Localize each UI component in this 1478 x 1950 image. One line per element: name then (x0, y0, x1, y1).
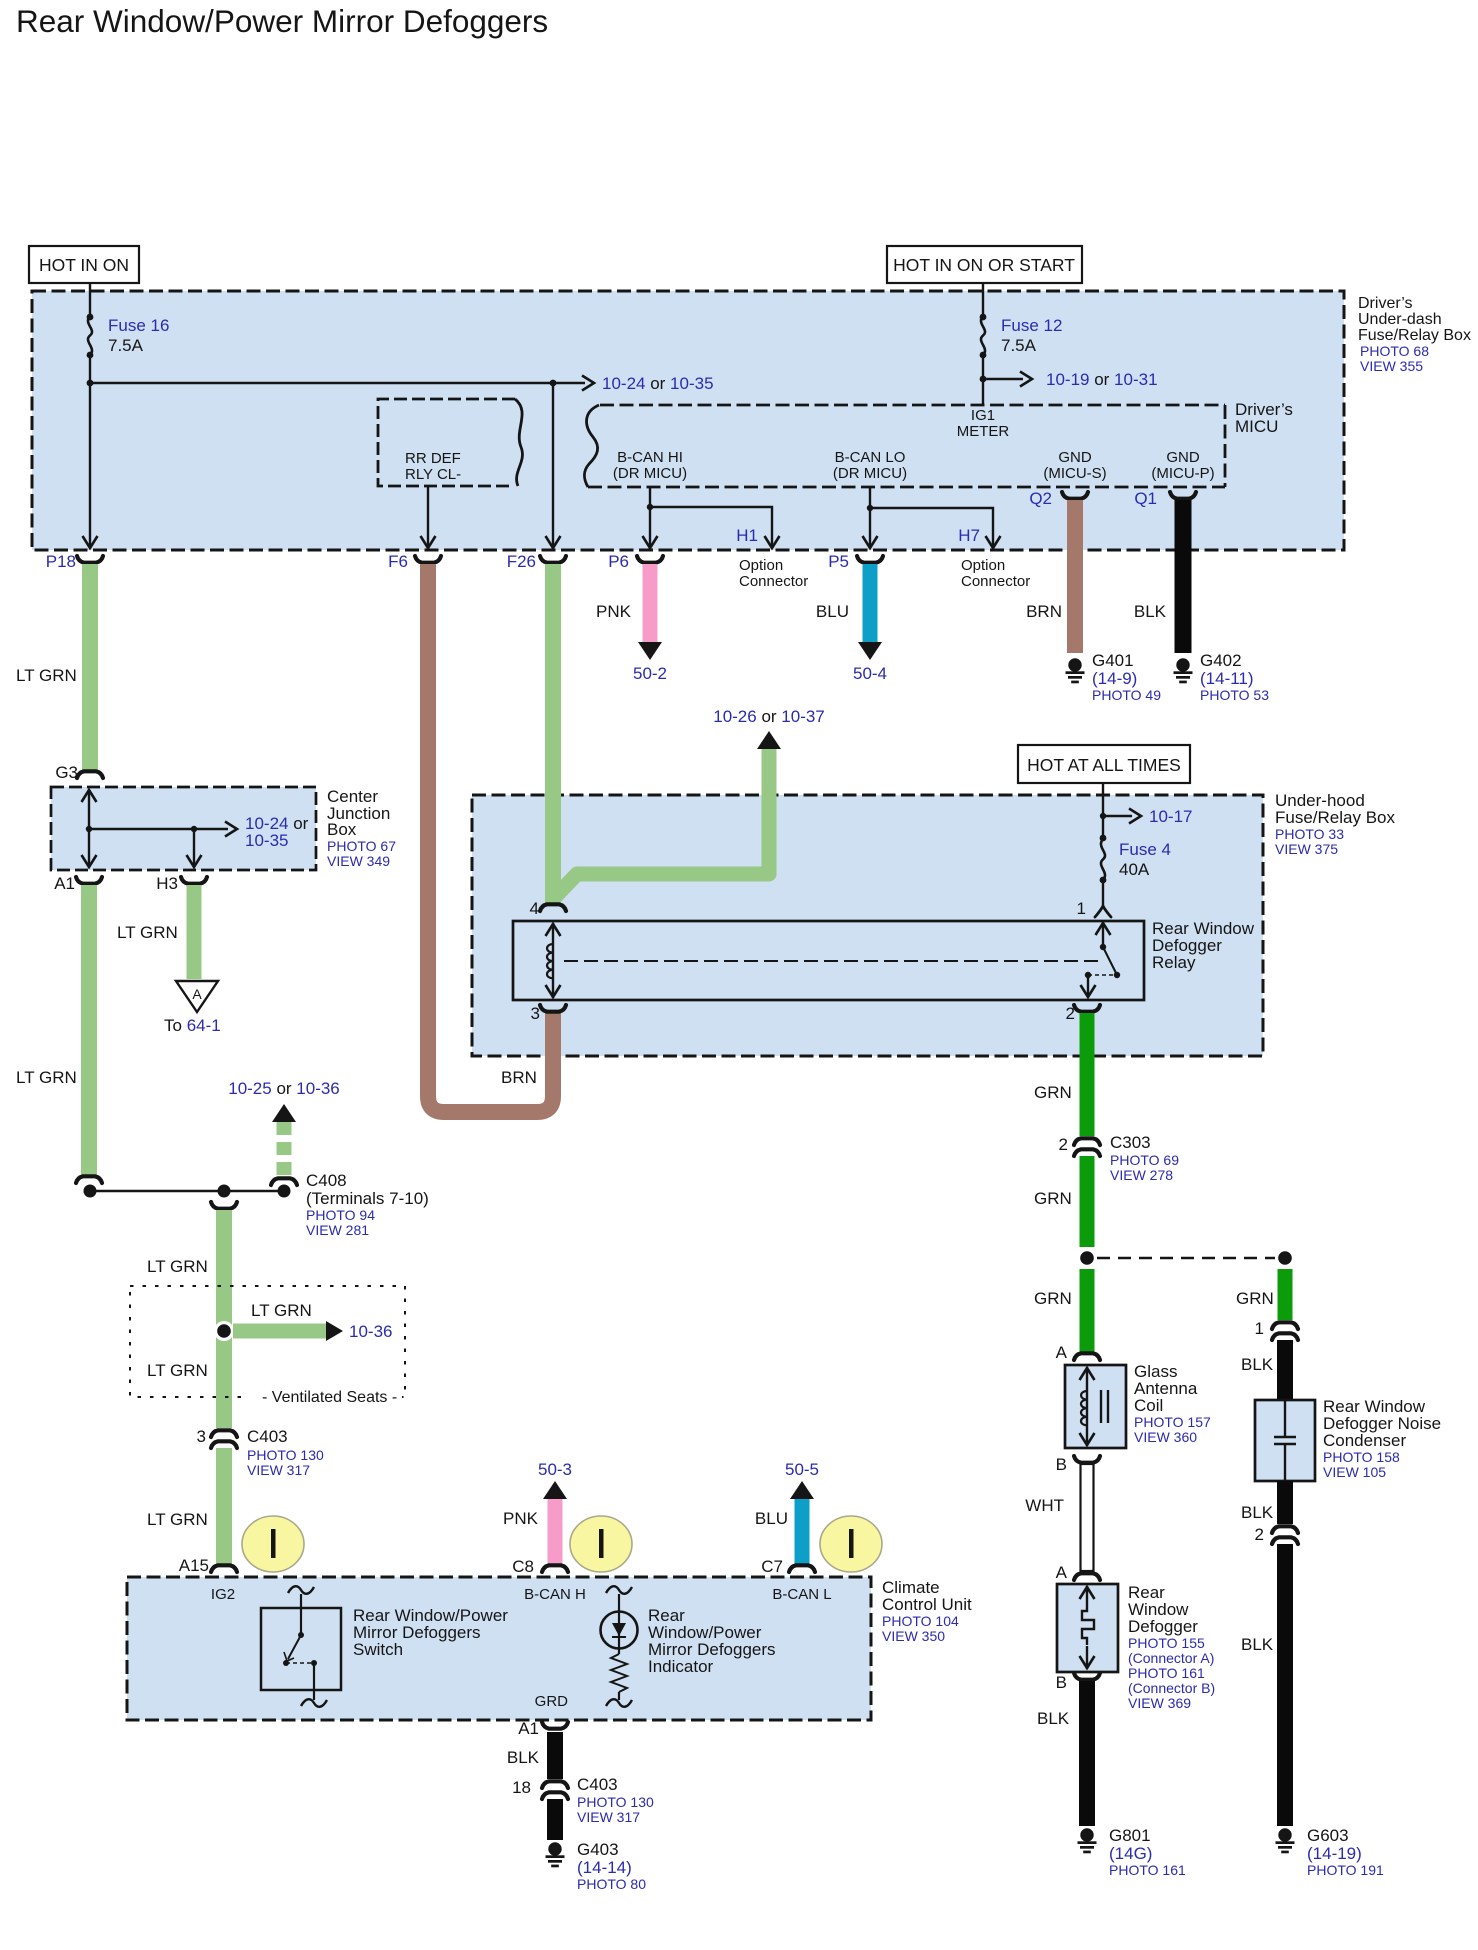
connector F26 (540, 556, 566, 563)
svg-text:Connector: Connector (739, 573, 808, 590)
svg-text:LT GRN: LT GRN (147, 1510, 208, 1529)
svg-text:18: 18 (512, 1778, 531, 1797)
connector P6 (637, 556, 663, 563)
svg-text:VIEW 355: VIEW 355 (1360, 358, 1423, 374)
svg-text:C403: C403 (247, 1427, 288, 1446)
node at (224,1331) (214, 1321, 234, 1341)
wire BLK defogger to G801 (1079, 1681, 1095, 1826)
svg-text:GRN: GRN (1034, 1189, 1072, 1208)
wire LT GRN dashed to 10-25 (277, 1122, 292, 1177)
svg-text:PHOTO 69: PHOTO 69 (1110, 1152, 1179, 1168)
node at (1285,1258) (1275, 1248, 1295, 1268)
connector Q2 (1062, 492, 1088, 499)
wire F6 drop (427, 486, 429, 546)
svg-text:PHOTO 49: PHOTO 49 (1092, 687, 1161, 703)
wire LT GRN A1 down (81, 885, 97, 1175)
svg-text:50-5: 50-5 (785, 1460, 819, 1479)
label Option Connector H1 (739, 557, 808, 590)
svg-text:RLY CL-: RLY CL- (405, 466, 461, 483)
svg-text:(14G): (14G) (1109, 1844, 1152, 1863)
connector pin 1 fork (1095, 906, 1111, 917)
indicator lamp ellipse 3 (820, 1516, 882, 1572)
svg-text:PHOTO 33: PHOTO 33 (1275, 826, 1344, 842)
wire LT GRN H3 (187, 885, 202, 979)
wire BLK to G603 (1277, 1544, 1293, 1826)
connector A1 (CCU) (542, 1722, 568, 1729)
svg-text:Option: Option (961, 557, 1005, 574)
svg-text:GRD: GRD (535, 1693, 569, 1710)
svg-text:PHOTO 130: PHOTO 130 (247, 1447, 324, 1463)
wire from HOT IN ON OR START (982, 283, 984, 317)
wire BLU to 50-4 (863, 564, 878, 642)
label C303 (1110, 1133, 1179, 1183)
connector relay pin 3 (540, 1005, 566, 1012)
svg-text:2: 2 (1059, 1135, 1068, 1154)
svg-text:VIEW 375: VIEW 375 (1275, 841, 1338, 857)
connector pin 2 (1272, 1526, 1298, 1544)
wire WHT (1081, 1464, 1094, 1571)
svg-text:RR DEF: RR DEF (405, 450, 461, 467)
svg-text:F26: F26 (507, 552, 536, 571)
wire LT GRN P18 to G3 (82, 564, 98, 772)
svg-text:B-CAN LO: B-CAN LO (835, 449, 906, 466)
label C408 (Terminals 7-10) (306, 1171, 429, 1238)
svg-text:VIEW 278: VIEW 278 (1110, 1167, 1173, 1183)
svg-text:GRN: GRN (1236, 1289, 1274, 1308)
svg-text:MICU: MICU (1235, 417, 1278, 436)
svg-text:7.5A: 7.5A (108, 336, 144, 355)
wire CJB to H3 (193, 829, 195, 866)
svg-text:B: B (1056, 1455, 1067, 1474)
wire branch to H7 (870, 508, 993, 546)
pin GND (MICU-S) (1043, 449, 1106, 482)
svg-text:HOT IN ON OR START: HOT IN ON OR START (893, 255, 1075, 275)
label C403 (247, 1427, 324, 1478)
svg-text:METER: METER (957, 423, 1010, 440)
svg-text:HOT AT ALL TIMES: HOT AT ALL TIMES (1027, 755, 1181, 775)
pin GND (MICU-P) (1151, 449, 1214, 482)
node at (553,383) (550, 380, 557, 387)
connector C8 (542, 1565, 568, 1572)
svg-text:Fuse 12: Fuse 12 (1001, 316, 1062, 335)
svg-text:GND: GND (1058, 449, 1092, 466)
wire BLK A1 (547, 1732, 563, 1779)
svg-text:LT GRN: LT GRN (16, 666, 77, 685)
wire BLK to condenser (1277, 1340, 1293, 1400)
wire GRN pin2 to C303 (1080, 1013, 1095, 1136)
connector A15 (211, 1565, 237, 1572)
svg-text:G403: G403 (577, 1840, 619, 1859)
connector C403 pin 3 (211, 1430, 237, 1448)
Center Junction Box (51, 787, 396, 870)
connector A1 (76, 877, 102, 884)
svg-text:Relay: Relay (1152, 953, 1196, 972)
svg-text:PHOTO 191: PHOTO 191 (1307, 1862, 1384, 1878)
svg-text:10-35: 10-35 (245, 831, 288, 850)
svg-text:PHOTO 80: PHOTO 80 (577, 1876, 646, 1892)
svg-text:(DR MICU): (DR MICU) (833, 465, 907, 482)
svg-text:PHOTO 67: PHOTO 67 (327, 838, 396, 854)
wire LT GRN to A15 (216, 1448, 232, 1564)
connector G3 (77, 771, 103, 778)
svg-text:(MICU-P): (MICU-P) (1151, 465, 1214, 482)
connector condenser pin 1 (1272, 1322, 1298, 1340)
svg-text:HOT IN ON: HOT IN ON (39, 255, 129, 275)
svg-text:PHOTO 53: PHOTO 53 (1200, 687, 1269, 703)
connector below (224,1191) (211, 1202, 237, 1209)
connector Q1 (1170, 492, 1196, 499)
svg-text:(14-9): (14-9) (1092, 669, 1137, 688)
svg-text:A1: A1 (54, 874, 75, 893)
indicator lamp ellipse 1 (242, 1516, 304, 1572)
svg-text:A15: A15 (179, 1556, 209, 1575)
wire GRN C303 to node (1080, 1156, 1095, 1247)
connector relay pin 2 (1074, 1005, 1100, 1012)
svg-text:C303: C303 (1110, 1133, 1151, 1152)
node A triangle (176, 981, 218, 1012)
svg-text:1: 1 (1077, 899, 1086, 918)
svg-text:Coil: Coil (1134, 1396, 1163, 1415)
node at (1087,1258) (1077, 1248, 1097, 1268)
svg-text:10-24 or 10-35: 10-24 or 10-35 (602, 374, 714, 393)
connector H3 (181, 877, 207, 884)
svg-text:A: A (192, 986, 202, 1002)
svg-text:To 64-1: To 64-1 (164, 1016, 221, 1035)
svg-text:PHOTO 155: PHOTO 155 (1128, 1635, 1205, 1651)
svg-text:10-25 or 10-36: 10-25 or 10-36 (228, 1079, 340, 1098)
svg-text:BLK: BLK (1037, 1709, 1070, 1728)
node at (870,508) (867, 505, 873, 511)
svg-text:Rear Window/Power Mirror Defog: Rear Window/Power Mirror Defoggers (16, 3, 548, 39)
svg-text:PHOTO 161: PHOTO 161 (1128, 1665, 1205, 1681)
svg-text:VIEW 317: VIEW 317 (247, 1462, 310, 1478)
svg-text:Control Unit: Control Unit (882, 1595, 972, 1614)
svg-text:C8: C8 (512, 1557, 534, 1576)
svg-text:BRN: BRN (501, 1068, 537, 1087)
ground G603 (1276, 1826, 1384, 1878)
wire BLK to G403 (547, 1799, 563, 1840)
wire C408 bus (90, 1190, 284, 1193)
svg-text:Q1: Q1 (1134, 489, 1157, 508)
wire from HOT AT ALL TIMES (1102, 783, 1104, 838)
wire F26 drop (552, 383, 554, 546)
Ventilated Seats box (130, 1286, 405, 1397)
svg-text:10-36: 10-36 (349, 1322, 392, 1341)
connector coil pin B (1074, 1456, 1100, 1463)
svg-text:B-CAN H: B-CAN H (524, 1586, 586, 1603)
wire arrow 10-17 (1103, 815, 1132, 817)
defogger internals (1080, 1586, 1095, 1669)
connector defogger pin A (1074, 1573, 1100, 1580)
wire LT GRN down to C403 (216, 1210, 232, 1428)
svg-text:PHOTO 104: PHOTO 104 (882, 1613, 959, 1629)
svg-text:BRN: BRN (1026, 602, 1062, 621)
svg-text:BLK: BLK (1241, 1355, 1274, 1374)
ground G402 (1174, 651, 1270, 703)
node at (1103,816) (1100, 813, 1106, 819)
svg-text:VIEW 360: VIEW 360 (1134, 1429, 1197, 1445)
svg-text:VIEW 350: VIEW 350 (882, 1628, 945, 1644)
svg-text:P6: P6 (608, 552, 629, 571)
svg-text:Fuse/Relay Box: Fuse/Relay Box (1275, 808, 1395, 827)
svg-text:H7: H7 (958, 526, 980, 545)
svg-text:PHOTO 161: PHOTO 161 (1109, 1862, 1186, 1878)
svg-text:Fuse 4: Fuse 4 (1119, 840, 1171, 859)
svg-text:A: A (1056, 1343, 1068, 1362)
coil internals (1080, 1367, 1109, 1446)
svg-text:IG2: IG2 (211, 1586, 235, 1603)
Driver's MICU box (584, 400, 1293, 487)
wire horizontal to 10-24 arrow (90, 382, 585, 384)
svg-text:G402: G402 (1200, 651, 1242, 670)
svg-text:P18: P18 (46, 552, 76, 571)
wire fuse16 to junction (89, 355, 91, 383)
wire fuse12 down to MICU (982, 355, 984, 405)
svg-text:C408: C408 (306, 1171, 347, 1190)
node at (650,507) (647, 504, 653, 510)
pin B-CAN LO (DR MICU) (833, 449, 907, 482)
svg-text:PNK: PNK (596, 602, 632, 621)
wire BRN F6 to relay pin 3 (428, 564, 553, 1112)
svg-text:H1: H1 (736, 526, 758, 545)
svg-text:Box: Box (327, 820, 357, 839)
svg-text:LT GRN: LT GRN (117, 923, 178, 942)
svg-text:- Ventilated Seats -: - Ventilated Seats - (262, 1389, 397, 1406)
svg-text:4: 4 (530, 899, 539, 918)
svg-text:A1: A1 (518, 1719, 539, 1738)
connector P5 (857, 556, 883, 563)
svg-text:Fuse 16: Fuse 16 (108, 316, 169, 335)
node at (284,1191) (278, 1185, 291, 1198)
connector C403 pin 18 (542, 1781, 568, 1799)
svg-text:B-CAN L: B-CAN L (772, 1586, 831, 1603)
arrow up 50-3 (543, 1481, 567, 1499)
Glass Antenna Coil box (1065, 1362, 1211, 1448)
relay box Rear Window Defogger Relay (513, 921, 1144, 1000)
svg-text:IG1: IG1 (971, 407, 995, 424)
svg-text:G801: G801 (1109, 1826, 1151, 1845)
svg-text:(DR MICU): (DR MICU) (613, 465, 687, 482)
svg-text:GRN: GRN (1034, 1083, 1072, 1102)
box HOT IN ON OR START (887, 246, 1082, 283)
connector coil pin A (1074, 1353, 1100, 1360)
ground G801 (1078, 1826, 1186, 1878)
svg-text:Indicator: Indicator (648, 1657, 714, 1676)
svg-text:Condenser: Condenser (1323, 1431, 1407, 1450)
node at (90,1191) (84, 1185, 97, 1198)
svg-text:G401: G401 (1092, 651, 1134, 670)
svg-text:P5: P5 (828, 552, 849, 571)
svg-text:BLK: BLK (1241, 1635, 1274, 1654)
connector C408 top of A1 wire (76, 1176, 102, 1183)
pin B-CAN HI (DR MICU) (613, 449, 687, 482)
svg-text:GRN: GRN (1034, 1289, 1072, 1308)
svg-text:LT GRN: LT GRN (251, 1301, 312, 1320)
svg-text:(Connector B): (Connector B) (1128, 1680, 1215, 1696)
svg-text:Q2: Q2 (1029, 489, 1052, 508)
svg-text:BLU: BLU (755, 1509, 788, 1528)
svg-text:F6: F6 (388, 552, 408, 571)
wire dashed link (1097, 1257, 1275, 1260)
svg-text:C403: C403 (577, 1775, 618, 1794)
wire P18 drop (89, 383, 91, 546)
svg-text:BLU: BLU (816, 602, 849, 621)
arrow up 50-5 (790, 1481, 814, 1499)
label indicator (648, 1606, 776, 1676)
connector C7 (789, 1565, 815, 1572)
connector defogger pin B (1074, 1673, 1100, 1680)
wire GRN right branch (1278, 1269, 1293, 1320)
wire LT GRN branch to 10-36 (233, 1324, 326, 1339)
switch Rear Window/Power Mirror Defoggers Switch (261, 1586, 341, 1707)
Climate Control Unit box (127, 1577, 972, 1720)
svg-text:GND: GND (1166, 449, 1200, 466)
indicator lamp ellipse 2 (570, 1516, 632, 1572)
label switch (353, 1606, 508, 1659)
svg-text:1: 1 (1255, 1319, 1264, 1338)
svg-text:3: 3 (197, 1427, 206, 1446)
Rear Window Defogger box (1057, 1583, 1215, 1711)
svg-text:(Terminals 7-10): (Terminals 7-10) (306, 1189, 429, 1208)
svg-text:50-2: 50-2 (633, 664, 667, 683)
Rear Window Defogger Noise Condenser box (1255, 1397, 1441, 1481)
connector P18 (77, 556, 103, 563)
Under-hood Fuse/Relay Box (472, 795, 1263, 1056)
svg-text:50-4: 50-4 (853, 664, 887, 683)
box HOT AT ALL TIMES (1018, 745, 1190, 783)
svg-text:(14-19): (14-19) (1307, 1844, 1362, 1863)
wire CJB to 10-24 (89, 828, 228, 830)
svg-text:40A: 40A (1119, 860, 1150, 879)
svg-text:10-17: 10-17 (1149, 807, 1192, 826)
Driver's Under-dash Fuse/Relay Box (32, 291, 1344, 550)
wire BLU to C7 (795, 1499, 810, 1564)
svg-text:VIEW 317: VIEW 317 (577, 1809, 640, 1825)
svg-text:VIEW 369: VIEW 369 (1128, 1695, 1191, 1711)
node at (89,829) (86, 826, 92, 832)
svg-text:Switch: Switch (353, 1640, 403, 1659)
svg-text:Connector: Connector (961, 573, 1030, 590)
svg-text:(14-11): (14-11) (1200, 669, 1254, 688)
svg-text:PHOTO 68: PHOTO 68 (1360, 343, 1429, 359)
wire BRN Q2 to G401 (1067, 500, 1083, 653)
wire CJB vertical (88, 791, 90, 866)
fuse Fuse 16 7.5A (87, 314, 170, 359)
wire from HOT IN ON (89, 283, 91, 317)
svg-text:50-3: 50-3 (538, 1460, 572, 1479)
connector F6 (415, 556, 441, 563)
svg-text:2: 2 (1255, 1525, 1264, 1544)
connector below (284,1191) (271, 1178, 297, 1185)
ground G401 (1066, 651, 1162, 703)
svg-text:PHOTO 158: PHOTO 158 (1323, 1449, 1400, 1465)
wire B-CAN HI to P6 (649, 487, 651, 546)
wire BLK below condenser (1277, 1481, 1293, 1524)
svg-text:(MICU-S): (MICU-S) (1043, 465, 1106, 482)
svg-text:LT GRN: LT GRN (147, 1361, 208, 1380)
svg-text:LT GRN: LT GRN (147, 1257, 208, 1276)
fuse Fuse 4 40A (1100, 835, 1171, 884)
svg-text:BLK: BLK (1241, 1503, 1274, 1522)
wire B-CAN LO to P5 (869, 487, 871, 546)
ground G403 (546, 1840, 647, 1892)
relay link dashed (564, 960, 1098, 962)
wire GRN node to coil A (1080, 1269, 1095, 1352)
svg-text:G3: G3 (55, 763, 78, 782)
arrow to 10-26 (757, 731, 781, 749)
svg-text:B-CAN HI: B-CAN HI (617, 449, 683, 466)
connector C303 pin 2 (1074, 1138, 1100, 1156)
svg-text:Under-dash: Under-dash (1358, 311, 1442, 328)
node at (983,379) (980, 376, 987, 383)
svg-text:A: A (1056, 1563, 1068, 1582)
svg-text:G603: G603 (1307, 1826, 1349, 1845)
relay switch (1081, 923, 1121, 997)
svg-text:(Connector A): (Connector A) (1128, 1650, 1214, 1666)
svg-text:Driver’s: Driver’s (1358, 295, 1413, 312)
wire LT GRN branch to 10-26 (554, 749, 769, 898)
wire PNK to 50-2 (643, 564, 658, 642)
svg-text:H3: H3 (156, 874, 178, 893)
svg-text:WHT: WHT (1025, 1496, 1064, 1515)
box HOT IN ON (29, 246, 139, 283)
svg-text:Fuse/Relay Box: Fuse/Relay Box (1358, 327, 1471, 344)
condenser internals (1274, 1400, 1296, 1481)
indicator Rear Window/Power Mirror Defoggers Indicator (601, 1586, 638, 1707)
connector relay pin 4 (540, 904, 566, 911)
svg-text:VIEW 349: VIEW 349 (327, 853, 390, 869)
wire LT GRN F26 to relay pin 4 (545, 564, 561, 903)
svg-text:BLK: BLK (1134, 602, 1167, 621)
node at (90,383) (87, 380, 94, 387)
RR DEF RLY CL- connector box (378, 399, 522, 486)
svg-text:(14-14): (14-14) (577, 1858, 632, 1877)
svg-text:7.5A: 7.5A (1001, 336, 1037, 355)
svg-text:PHOTO 130: PHOTO 130 (577, 1794, 654, 1810)
svg-text:B: B (1056, 1673, 1067, 1692)
wire BLK Q1 to G402 (1175, 500, 1192, 653)
pin IG1 METER (957, 407, 1010, 440)
label Option Connector H7 (961, 557, 1030, 590)
wire branch to H1 (650, 507, 772, 546)
wire fuse4 to pin 1 (1102, 880, 1104, 906)
svg-text:PHOTO 157: PHOTO 157 (1134, 1414, 1211, 1430)
svg-text:10-19 or 10-31: 10-19 or 10-31 (1046, 370, 1158, 389)
svg-text:C7: C7 (761, 1557, 783, 1576)
svg-text:10-26 or 10-37: 10-26 or 10-37 (713, 707, 825, 726)
svg-text:VIEW 281: VIEW 281 (306, 1222, 369, 1238)
svg-text:VIEW 105: VIEW 105 (1323, 1464, 1386, 1480)
fuse Fuse 12 7.5A (980, 314, 1063, 359)
svg-text:Option: Option (739, 557, 783, 574)
svg-text:Defogger: Defogger (1128, 1617, 1198, 1636)
node at (194,829) (191, 826, 197, 832)
wire arrow 10-19 (983, 378, 1023, 380)
node at (224,1191) (218, 1185, 231, 1198)
relay coil (546, 923, 561, 998)
svg-text:BLK: BLK (507, 1748, 540, 1767)
svg-text:LT GRN: LT GRN (16, 1068, 77, 1087)
wire PNK to C8 (548, 1499, 563, 1564)
label C403 (577, 1775, 654, 1825)
svg-text:PHOTO 94: PHOTO 94 (306, 1207, 375, 1223)
svg-text:PNK: PNK (503, 1509, 539, 1528)
